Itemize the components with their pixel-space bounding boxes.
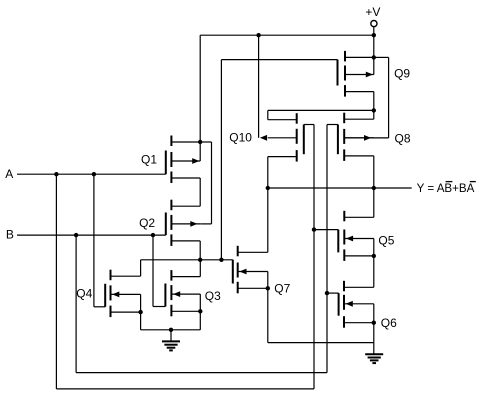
wire Q9 body tie stub (373, 57, 375, 74)
transistor Q10 (260, 113, 304, 161)
svg-text:Q8: Q8 (395, 131, 411, 145)
wire B branch to Q3 gate (152, 235, 154, 306)
wire B input line (17, 234, 166, 236)
junction node +V (372, 33, 376, 37)
junction node B1 (74, 233, 78, 237)
junction node output left (266, 186, 270, 190)
junction node A1 (54, 172, 58, 176)
svg-text:Q4: Q4 (76, 287, 92, 301)
wire Q7 gate bar entry (232, 260, 234, 284)
transistor Q2 (166, 200, 200, 246)
wire Q8 body extension (344, 137, 388, 139)
wire A branch to Q4 gate (93, 174, 95, 307)
wire Q6 body tie (373, 304, 375, 323)
wire Q6 source down to ground 2 (373, 323, 375, 355)
junction node ground 1 (169, 328, 173, 332)
wire output down to Q5 drain (373, 188, 375, 217)
wire +V stem (373, 27, 375, 58)
wire Q9 source to Q8 drain (373, 92, 375, 120)
wire Q5 gate lead (314, 229, 338, 231)
wire bottom rail A (56, 388, 314, 390)
transistor Q6 (339, 281, 374, 328)
transistor Q5 (338, 211, 374, 261)
wire Q10 gate lead (304, 124, 314, 126)
ground G1 (162, 330, 180, 351)
wire Q5 source to Q6 drain (373, 256, 375, 287)
junction node B riser to Q6 gate (325, 291, 329, 295)
junction node Q2 source / Q3 drain (198, 258, 202, 262)
junction node A2 (92, 172, 96, 176)
wire Q4 drain up to middle rail (140, 260, 142, 276)
svg-text:+V: +V (365, 5, 380, 19)
svg-text:Q3: Q3 (205, 289, 221, 303)
wire Q2 source down (199, 241, 201, 260)
wire Q9 drain down to Q8 body (388, 57, 390, 137)
wire Q9 gate rail (221, 59, 337, 61)
wire Q8 source to output (373, 156, 375, 188)
wire Q3 source down (199, 311, 201, 330)
transistor Q9 (338, 51, 374, 97)
wire Q9 drain corner (374, 56, 389, 58)
transistor Q3 (165, 270, 200, 316)
wire middle rail (141, 259, 233, 261)
svg-text:Q9: Q9 (394, 67, 410, 81)
svg-text:A: A (5, 167, 13, 181)
wire Q7 source to ground 2 (268, 342, 374, 344)
wire Q1 drain up to +V rail (199, 35, 201, 142)
wire ground rail 1 (141, 329, 201, 331)
wire rail Q10 drain to Q8 drain (268, 109, 374, 111)
wire A branch down left (55, 174, 57, 389)
junction node Q3 source (198, 309, 202, 313)
ground G2 (365, 354, 383, 363)
wire Q1 drain corner (200, 141, 211, 143)
wire Q3 body tie (199, 294, 201, 311)
transistor Q4 (105, 270, 140, 317)
junction node output right (372, 186, 376, 190)
svg-text:Q10: Q10 (229, 131, 252, 145)
wire Q4 body tie (140, 294, 142, 312)
svg-text:Q6: Q6 (381, 316, 397, 330)
wire B branch down left (75, 235, 77, 373)
wire Q7 body tie (267, 272, 269, 289)
wire Q6 gate lead (327, 292, 339, 294)
wire +V to Q10 body arrow (258, 35, 260, 138)
wire Q7 gate riser (220, 60, 222, 260)
wire bottom rail B (76, 372, 327, 374)
svg-text:Q5: Q5 (378, 234, 394, 248)
wire Q10 source to Q7 drain (267, 157, 269, 253)
junction node Q6 source (372, 321, 376, 325)
wire Q3 gate lead (153, 306, 165, 308)
wire Q7 source down (267, 288, 269, 342)
wire Q2 body extension (200, 223, 211, 225)
junction node Q7 gate (219, 258, 223, 262)
wire A riser right (313, 125, 315, 389)
wire Q4 source down (140, 312, 142, 330)
wire Q8 gate lead (327, 124, 338, 126)
junction node Q1 drain (198, 140, 202, 144)
wire Q10 drain up (267, 110, 269, 119)
wire Q1 drain down to Q2 body (211, 142, 213, 224)
wire A input line (17, 173, 166, 175)
label output Y = AB&#772;+BA&#772; (417, 182, 476, 196)
transistor Q1 (166, 136, 200, 184)
svg-text:B: B (6, 228, 14, 242)
junction node A riser to Q5 gate (312, 227, 316, 231)
wire Q1 body tie stub (199, 142, 201, 161)
svg-text:Q7: Q7 (274, 281, 290, 295)
junction node Q8 drain rail (372, 108, 376, 112)
wire Q5 body tie (373, 239, 375, 256)
wire +V rail (200, 34, 374, 36)
junction node B2 (151, 233, 155, 237)
svg-text:Y = AB+BA: Y = AB+BA (417, 182, 475, 195)
svg-text:Q2: Q2 (139, 216, 155, 230)
wire Q4 gate lead (94, 306, 105, 308)
junction node Q5 source (372, 254, 376, 258)
junction node Q9 drain (372, 55, 376, 59)
wire output Y line (268, 187, 412, 189)
junction node +V rail to Q10 body (256, 33, 260, 37)
wire Q1 source to Q2 drain (199, 178, 201, 206)
svg-text:Q1: Q1 (141, 152, 157, 166)
wire Q3 drain up (199, 260, 201, 277)
power +V terminal (365, 5, 380, 27)
junction node Q7 source (266, 286, 270, 290)
wire B riser right (326, 125, 328, 373)
transistor Q8 (338, 113, 374, 161)
transistor Q7 (233, 246, 268, 293)
junction node Q4 source (138, 310, 142, 314)
